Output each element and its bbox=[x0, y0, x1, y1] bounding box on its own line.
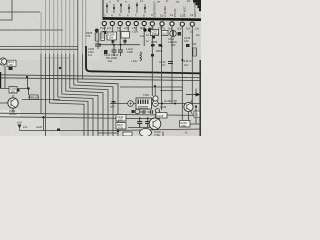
small circle node b bbox=[155, 109, 159, 113]
label R318 bbox=[23, 125, 28, 129]
capacitor C205b bbox=[118, 45, 123, 56]
junction dot C bbox=[117, 130, 119, 132]
wire pin8 down bbox=[143, 26, 145, 46]
IC pin number labels bbox=[104, 13, 194, 17]
output arrow bbox=[186, 93, 201, 97]
dot pin10 lead bbox=[161, 45, 163, 47]
junction dot cap2 bbox=[120, 44, 122, 46]
capacitor C211 blob bbox=[151, 54, 154, 57]
capacitor left of trap bbox=[112, 102, 116, 104]
svg-text:CONTRAST: CONTRAST bbox=[153, 1, 157, 17]
trap right source circle bbox=[153, 101, 159, 107]
right edge dark line bbox=[199, 60, 201, 136]
junction dot F bbox=[195, 105, 197, 107]
label R215 bbox=[182, 59, 192, 67]
svg-text:T202: T202 bbox=[143, 93, 149, 97]
secondary label row bbox=[104, 26, 200, 37]
svg-text:T(3k): T(3k) bbox=[154, 133, 160, 136]
wire horizontal y113.5 full bbox=[0, 113, 201, 115]
coil L205 bbox=[140, 52, 142, 61]
blob under L204 bbox=[124, 40, 127, 43]
wire left horizontal y58 bbox=[44, 57, 70, 59]
resistor box bottom edge bbox=[123, 132, 132, 136]
svg-text:2w: 2w bbox=[187, 0, 190, 3]
wire top-left horizontal bbox=[0, 11, 40, 13]
transistor Q203 bbox=[149, 118, 161, 130]
series caps on wire bbox=[140, 110, 152, 114]
svg-text:13: 13 bbox=[190, 13, 194, 17]
wire pin4 down bbox=[111, 26, 113, 44]
wire bus line 4 bbox=[54, 54, 88, 136]
svg-text:10n: 10n bbox=[161, 63, 166, 67]
transistor Q201 bbox=[184, 99, 193, 115]
pot oval bbox=[140, 129, 152, 137]
trap transformer T202 bbox=[128, 93, 159, 109]
capacitor C205a bbox=[112, 45, 117, 56]
svg-text:503: 503 bbox=[171, 43, 176, 47]
label X201 bbox=[168, 37, 178, 47]
wire bus line 9 bbox=[74, 54, 113, 136]
wire horizontal y117 bbox=[0, 117, 160, 119]
resistor R313 box bbox=[30, 95, 39, 100]
label C205 bbox=[104, 53, 119, 63]
wire left horizontal y88.5 bbox=[0, 89, 29, 96]
svg-text:mW: mW bbox=[110, 105, 115, 109]
svg-text:L205: L205 bbox=[127, 50, 133, 54]
dot pin12 lead bbox=[181, 59, 183, 61]
paper background bbox=[0, 0, 201, 136]
svg-text:10: 10 bbox=[160, 14, 164, 18]
phase det circle bbox=[153, 96, 158, 101]
pin lead wires down bbox=[104, 26, 192, 120]
right mid verticals bbox=[153, 89, 197, 137]
svg-text:4.7k: 4.7k bbox=[118, 126, 124, 130]
wire left horizontal y46 bbox=[0, 46, 78, 48]
label C210 bbox=[156, 32, 163, 53]
label Q302 bbox=[9, 109, 17, 116]
coil L204 box bbox=[121, 32, 130, 39]
svg-text:+12v: +12v bbox=[132, 30, 139, 34]
svg-text:G.: G. bbox=[185, 131, 188, 135]
transistor Q301 top-left bbox=[0, 58, 7, 65]
svg-text:+12v: +12v bbox=[131, 59, 138, 63]
label pin9 net bbox=[146, 33, 150, 43]
capacitor C320 blob bbox=[57, 129, 60, 132]
svg-text:Cw: Cw bbox=[195, 26, 199, 30]
svg-text:b10: b10 bbox=[184, 39, 189, 43]
junction dot D bbox=[154, 85, 156, 87]
wire bus line 3 bbox=[50, 54, 85, 136]
box pin10 component bbox=[162, 31, 169, 36]
label R319 bbox=[36, 125, 43, 129]
wire bus line 7 bbox=[66, 54, 103, 136]
svg-text:R2: R2 bbox=[193, 42, 197, 46]
wire horizontal y75.5 full bbox=[0, 75, 201, 78]
shield box bottom edge bbox=[86, 46, 201, 73]
label C214 bbox=[184, 36, 191, 43]
junction dot E bbox=[27, 87, 29, 89]
IC internal pin symbols bbox=[107, 2, 145, 13]
junction dot A bbox=[59, 67, 61, 69]
svg-text:V RAMP: V RAMP bbox=[163, 6, 167, 17]
svg-text:A1015: A1015 bbox=[9, 112, 17, 116]
label R212 bbox=[193, 42, 197, 46]
svg-text:103: 103 bbox=[8, 63, 13, 67]
junction blob pin8b bbox=[148, 28, 152, 32]
capacitor C207 blob bbox=[152, 36, 155, 39]
svg-text:w: w bbox=[125, 0, 127, 3]
IC top edge text marks bbox=[109, 0, 190, 3]
junction dot B bbox=[26, 76, 28, 78]
wire pin5 down bbox=[119, 26, 121, 44]
capacitor C204 blob bbox=[112, 41, 115, 43]
wire bus line 6 bbox=[62, 54, 98, 136]
capacitor C208 blob bbox=[159, 44, 162, 47]
IC U201 outline bbox=[103, 0, 202, 20]
svg-text:R209: R209 bbox=[156, 49, 163, 53]
crystal X201 bbox=[170, 30, 176, 36]
label C203 bbox=[88, 47, 95, 57]
box C204 bbox=[107, 32, 117, 40]
wire bus line 2 bbox=[45, 54, 47, 136]
svg-text:11: 11 bbox=[170, 13, 173, 17]
wire right horizontal y87 bbox=[120, 86, 183, 88]
svg-text:103: 103 bbox=[118, 118, 123, 122]
wire bus line 11 bbox=[82, 54, 84, 79]
svg-text:12: 12 bbox=[180, 14, 184, 18]
resistor R205 bbox=[95, 29, 99, 41]
resistor R214 bbox=[193, 48, 197, 56]
capacitor C224 bbox=[145, 117, 150, 128]
svg-text:AL30: AL30 bbox=[36, 125, 43, 129]
wire bus upper faint segments bbox=[41, 0, 83, 54]
svg-text:R215 1k: R215 1k bbox=[182, 59, 192, 63]
junction blob pin8a bbox=[143, 28, 146, 31]
svg-text:C2: C2 bbox=[156, 32, 160, 36]
svg-text:C228: C228 bbox=[157, 114, 164, 118]
junction dot I bbox=[174, 103, 176, 105]
capacitor blob under pin3 bbox=[103, 31, 106, 34]
svg-text:Su2: Su2 bbox=[162, 31, 167, 35]
small circle node a bbox=[135, 109, 140, 114]
wire left horizontal y49 bbox=[0, 48, 78, 50]
capacitor blob left of node a bbox=[132, 110, 135, 113]
capacitor C214 blob bbox=[186, 44, 190, 47]
wire trap row bbox=[110, 103, 201, 105]
capacitor C223 bbox=[137, 117, 142, 128]
label GULF bbox=[154, 130, 161, 137]
wire bus line 1 bbox=[40, 54, 42, 114]
wire top-left step bbox=[0, 0, 12, 20]
capacitor C209 blob bbox=[151, 44, 155, 47]
svg-text:C209: C209 bbox=[151, 40, 158, 44]
IC pin circles bbox=[102, 21, 194, 26]
wire bus line 8 bbox=[70, 54, 108, 136]
wire dot D drop bbox=[154, 87, 156, 101]
wire pin9 down bbox=[151, 27, 153, 97]
svg-text:4u DET/TD: 4u DET/TD bbox=[164, 99, 177, 103]
box C306 bbox=[9, 87, 17, 94]
label R308 bbox=[28, 96, 40, 100]
svg-text:10n: 10n bbox=[184, 63, 189, 67]
svg-text:C226: C226 bbox=[160, 105, 167, 109]
left edge dark segment bbox=[0, 72, 2, 88]
wire pin12 down bbox=[181, 27, 183, 120]
label R206 bbox=[86, 31, 93, 38]
box C225 bbox=[116, 115, 126, 122]
label L205 bbox=[126, 47, 133, 54]
svg-text:16v: 16v bbox=[108, 59, 113, 63]
wire y99 bbox=[22, 99, 60, 101]
box R230 bbox=[180, 121, 191, 128]
box C228 bbox=[156, 113, 167, 119]
svg-text:+5V: +5V bbox=[17, 121, 22, 125]
wire y127.5 bbox=[128, 127, 152, 129]
wire dotB drop bbox=[27, 77, 29, 89]
wire bus line 12 faint bbox=[85, 0, 87, 46]
label J201 box bbox=[194, 111, 201, 117]
svg-text:R308 100: R308 100 bbox=[28, 96, 40, 100]
capacitor C213 bbox=[168, 62, 173, 64]
wire pin10 down bbox=[161, 27, 163, 111]
capacitor C207 box bbox=[151, 30, 159, 36]
wire left horizontal y30 bbox=[0, 29, 63, 31]
wire dot F down bbox=[190, 107, 201, 125]
wire pin11 down bbox=[171, 27, 173, 104]
resistor R206 bbox=[101, 32, 105, 41]
capacitor C203 bbox=[95, 41, 101, 49]
top-right corner dark marks bbox=[193, 0, 201, 11]
wire L204 down bbox=[124, 38, 126, 45]
wire bus line 10 bbox=[78, 0, 118, 136]
wire pin6 down bbox=[127, 26, 129, 33]
wire mid horizontal y44.5 bbox=[98, 44, 140, 46]
pin name labels under pins bbox=[100, 26, 199, 30]
wire horizontal y78.5 full bbox=[0, 78, 201, 81]
svg-text:PIX IN: PIX IN bbox=[173, 9, 177, 17]
svg-text:10n: 10n bbox=[23, 125, 28, 129]
wire left vertical x5 bbox=[4, 66, 6, 88]
wire junction drop x43.5 bbox=[43, 117, 45, 130]
wire pin7 down bbox=[135, 26, 137, 31]
svg-text:10v: 10v bbox=[88, 53, 93, 57]
svg-text:2r: 2r bbox=[166, 0, 168, 3]
svg-text:4.5e: 4.5e bbox=[124, 26, 130, 30]
box R227 bbox=[116, 123, 126, 130]
svg-text:684: 684 bbox=[182, 124, 187, 128]
label C213 bbox=[159, 60, 166, 67]
svg-text:104: 104 bbox=[109, 36, 114, 40]
wire right horizontal y90 bbox=[160, 90, 183, 92]
junction dot cap1 bbox=[113, 44, 115, 46]
power +5V arrow bbox=[17, 121, 22, 131]
svg-text:103: 103 bbox=[10, 90, 15, 94]
capacitor C301 blob bbox=[9, 67, 13, 70]
label right of trap bbox=[160, 105, 167, 109]
capacitor blob under pin4 bbox=[111, 33, 114, 36]
IC internal vertical labels bbox=[153, 0, 198, 17]
trap box bbox=[136, 98, 152, 109]
transistor Q302 bbox=[0, 95, 18, 114]
wire bus line 5 bbox=[58, 54, 93, 136]
svg-text:Cw: Cw bbox=[196, 34, 200, 37]
svg-text:472: 472 bbox=[86, 34, 91, 38]
capacitor C306 blob bbox=[17, 89, 20, 92]
wire pin3 down bbox=[103, 26, 105, 30]
trap left source circle bbox=[128, 101, 134, 107]
capacitor C202 blob bbox=[104, 50, 108, 54]
wire bottom y130 bbox=[20, 129, 202, 131]
svg-text:uw: uw bbox=[157, 0, 160, 3]
wire pin13 down bbox=[191, 27, 193, 104]
wire y133 left stub bbox=[98, 132, 118, 134]
junction dot H bbox=[161, 103, 163, 105]
svg-text:1Dr: 1Dr bbox=[177, 26, 181, 30]
label W4 103 box bbox=[7, 60, 16, 66]
junction dot G bbox=[42, 116, 44, 118]
capacitor X201 side blob bbox=[178, 32, 182, 36]
